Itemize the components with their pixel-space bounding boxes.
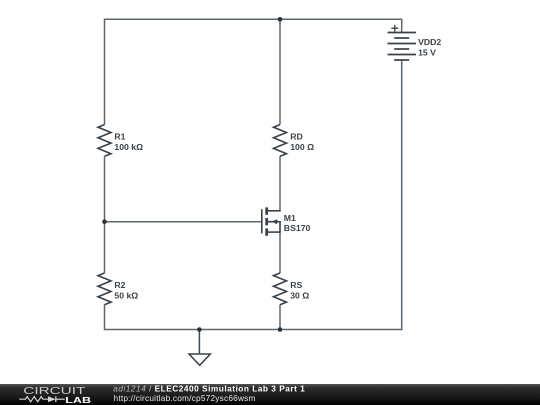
svg-text:LAB: LAB [65, 396, 91, 405]
svg-text:15 V: 15 V [418, 48, 436, 58]
label RD [290, 132, 303, 142]
wire left vertical lower (R2 to bottom rail) [104, 305, 106, 331]
wire source (M1 to RS) [279, 232, 281, 273]
svg-text:100 Ω: 100 Ω [290, 142, 314, 152]
svg-text:30 Ω: 30 Ω [290, 291, 309, 301]
svg-text:R2: R2 [114, 280, 125, 290]
label M1 part BS170 [284, 223, 311, 233]
svg-text:M1: M1 [284, 213, 296, 223]
label R2 value 50 k&#937; [114, 291, 138, 301]
label RS value 30 &#937; [290, 291, 309, 301]
label RS [290, 280, 302, 290]
svg-text:R1: R1 [114, 132, 125, 142]
svg-text:BS170: BS170 [284, 223, 311, 233]
wire drain (RD to M1) [279, 156, 281, 211]
wire bottom rail [105, 329, 402, 331]
svg-text:adi1214 / ELEC2400 Simulation: adi1214 / ELEC2400 Simulation Lab 3 Part… [113, 383, 305, 393]
svg-text:100 kΩ: 100 kΩ [114, 142, 143, 152]
wire right vertical (battery bottom to bottom rail) [401, 60, 403, 330]
resistor R2 [98, 273, 111, 305]
footer title line [113, 383, 305, 393]
footer logo resistor-diode glyph [19, 396, 65, 402]
label M1 [284, 213, 296, 223]
footer bar [0, 384, 540, 405]
node source junction (RS branch to bottom rail) [278, 327, 283, 332]
resistor RS [274, 273, 287, 305]
wire top rail [105, 18, 402, 20]
ground [189, 354, 210, 365]
resistor R1 [98, 125, 111, 157]
footer logo LAB [65, 396, 91, 405]
svg-text:VDD2: VDD2 [418, 37, 441, 47]
label RD value 100 &#937; [290, 142, 314, 152]
wire RS to bottom rail [279, 305, 281, 330]
label R1 value 100 k&#937; [114, 142, 143, 152]
svg-text:RS: RS [290, 280, 302, 290]
node ground junction [197, 327, 202, 332]
wire ground stub [198, 330, 200, 355]
wire battery top stub [401, 19, 403, 33]
label VDD2 value 15 V [418, 48, 436, 58]
transistor M1 [262, 207, 281, 235]
wire left vertical middle (R1 to R2) [104, 156, 106, 273]
label VDD2 [418, 37, 441, 47]
wire gate (left branch to M1 gate) [105, 221, 262, 223]
svg-text:http://circuitlab.com/cp572ysc: http://circuitlab.com/cp572ysc66wsm [114, 393, 256, 403]
footer logo CIRCUIT [23, 386, 85, 397]
resistor RD [274, 125, 287, 157]
battery plus sign [391, 25, 398, 32]
svg-text:50 kΩ: 50 kΩ [114, 291, 138, 301]
node gate junction (gate wire to left branch) [102, 219, 107, 224]
wire left vertical upper (top rail to R1) [104, 19, 106, 125]
footer url line [114, 393, 256, 403]
node top junction (RD branch to top rail) [278, 17, 283, 22]
wire middle vertical upper (top rail to RD) [279, 19, 281, 124]
battery VDD2 [388, 33, 417, 61]
label R1 [114, 132, 125, 142]
label R2 [114, 280, 125, 290]
svg-text:RD: RD [290, 132, 303, 142]
